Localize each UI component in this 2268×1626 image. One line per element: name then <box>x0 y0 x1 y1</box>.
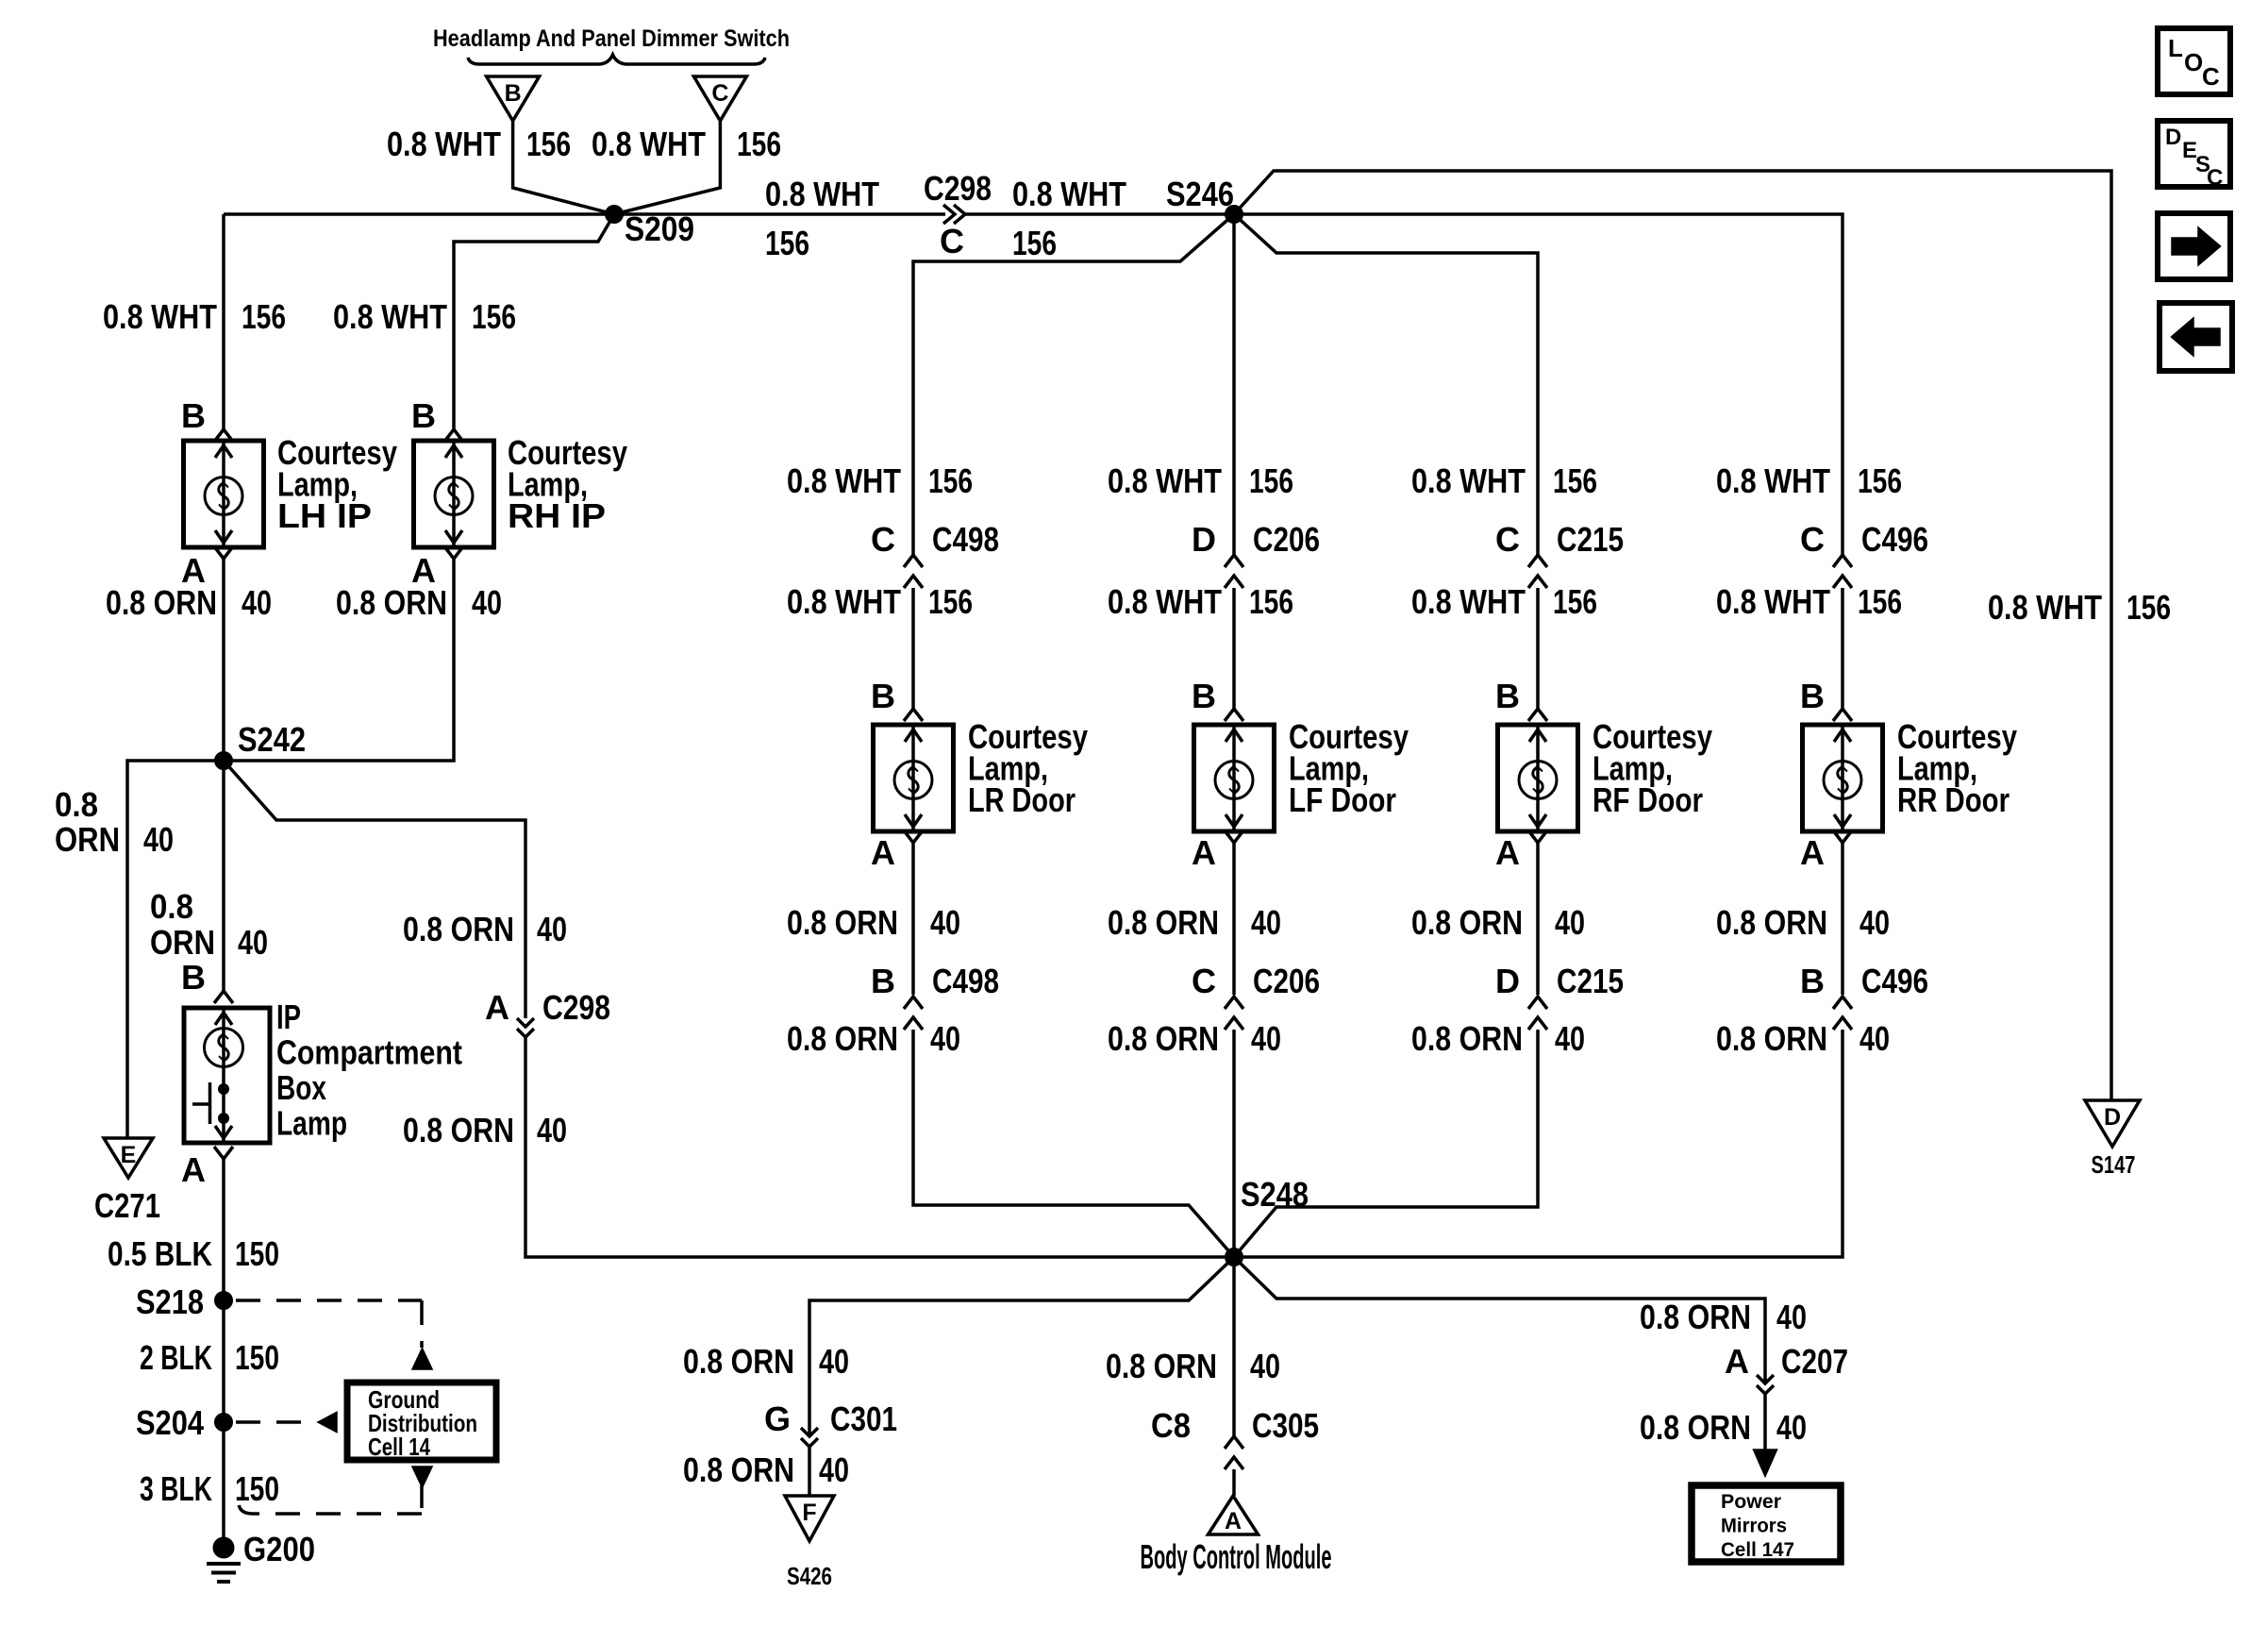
wire: LF door return to S248 <box>1232 1030 1236 1257</box>
svg-text:0.8 WHT: 0.8 WHT <box>787 582 901 621</box>
svg-text:156: 156 <box>1249 582 1293 621</box>
svg-text:0.8 WHT: 0.8 WHT <box>103 297 217 336</box>
wire: S248 to connector C207 <box>1234 1257 1765 1383</box>
wire: C496 to courtesy lamp RR Door <box>1841 588 1844 709</box>
svg-text:A: A <box>1192 833 1216 872</box>
svg-text:0.8 ORN: 0.8 ORN <box>683 1450 794 1489</box>
svg-text:D: D <box>1495 962 1520 1000</box>
svg-text:0.8 ORN: 0.8 ORN <box>1411 1019 1523 1058</box>
wire: LH IP lamp to S242 <box>222 559 225 761</box>
svg-text:40: 40 <box>472 583 502 622</box>
svg-text:40: 40 <box>930 903 960 942</box>
svg-text:150: 150 <box>235 1234 279 1273</box>
svg-text:156: 156 <box>1553 582 1597 621</box>
svg-text:0.8 ORN: 0.8 ORN <box>106 583 217 622</box>
wire: courtesy lamp RR Door to connector <box>1841 843 1844 995</box>
svg-text:Headlamp And Panel Dimmer Swit: Headlamp And Panel Dimmer Switch <box>433 25 790 52</box>
splice S204 <box>215 1414 233 1432</box>
svg-text:LF Door: LF Door <box>1289 780 1396 819</box>
svg-text:C271: C271 <box>94 1186 160 1225</box>
svg-text:B: B <box>181 958 206 997</box>
svg-text:156: 156 <box>2126 588 2171 627</box>
svg-text:LH IP: LH IP <box>277 496 372 535</box>
courtesy lamp RF Door <box>1498 725 1578 831</box>
svg-text:D: D <box>1192 520 1216 559</box>
svg-text:0.8 ORN: 0.8 ORN <box>403 1111 514 1149</box>
wire: C298 A down to S248 run <box>525 1037 1225 1257</box>
wire: S246 feed down to Courtesy Lamp LH IP <box>222 214 225 429</box>
svg-text:C: C <box>1800 520 1825 559</box>
wire: RH IP lamp to S242 <box>224 559 454 761</box>
svg-text:156: 156 <box>1553 461 1597 500</box>
svg-text:0.8 ORN: 0.8 ORN <box>1640 1408 1751 1447</box>
wire: C298 to S246 <box>965 212 1234 216</box>
svg-text:0.8 ORN: 0.8 ORN <box>1108 903 1219 942</box>
svg-text:0.8 ORN: 0.8 ORN <box>1640 1298 1751 1336</box>
reference box: Power Mirrors Cell 147 <box>1692 1485 1841 1562</box>
courtesy lamp LH IP <box>184 441 264 547</box>
svg-text:G200: G200 <box>243 1530 315 1568</box>
svg-text:C206: C206 <box>1253 520 1320 559</box>
splice S242 <box>215 752 233 770</box>
svg-text:A: A <box>1800 833 1825 872</box>
svg-text:Box: Box <box>276 1068 326 1107</box>
svg-text:A: A <box>1725 1342 1749 1381</box>
svg-text:40: 40 <box>1859 903 1890 942</box>
svg-text:40: 40 <box>1555 1019 1585 1058</box>
svg-text:B: B <box>1192 677 1216 715</box>
svg-text:0.5 BLK: 0.5 BLK <box>108 1234 212 1273</box>
svg-text:40: 40 <box>1776 1298 1807 1336</box>
svg-text:C496: C496 <box>1861 962 1928 1000</box>
pin A of LH IP lamp <box>214 546 233 559</box>
svg-text:S204: S204 <box>136 1403 204 1442</box>
svg-text:Compartment: Compartment <box>276 1033 462 1072</box>
svg-text:156: 156 <box>1858 461 1902 500</box>
svg-text:0.8 ORN: 0.8 ORN <box>1108 1019 1219 1058</box>
svg-text:RH IP: RH IP <box>508 496 606 535</box>
svg-text:A: A <box>1495 833 1520 872</box>
svg-text:C498: C498 <box>932 520 999 559</box>
svg-text:Cell 14: Cell 14 <box>368 1433 430 1461</box>
svg-text:0.8 WHT: 0.8 WHT <box>1012 175 1126 213</box>
wire: box lamp to S218 <box>222 1159 225 1300</box>
courtesy lamp LR Door <box>874 725 954 831</box>
svg-text:C305: C305 <box>1252 1406 1319 1445</box>
reference box: Ground Distribution Cell 14 <box>347 1383 496 1460</box>
svg-text:40: 40 <box>1251 903 1281 942</box>
svg-text:A: A <box>181 1150 206 1189</box>
svg-text:156: 156 <box>1249 461 1293 500</box>
svg-text:40: 40 <box>819 1450 849 1489</box>
svg-text:A: A <box>871 833 895 872</box>
svg-text:Cell 147: Cell 147 <box>1721 1539 1794 1561</box>
svg-text:S218: S218 <box>136 1282 204 1321</box>
wire: S248 to connector C305 <box>1232 1257 1236 1436</box>
svg-text:LR Door: LR Door <box>968 780 1076 819</box>
connector triangle B (dimmer switch pin B) <box>487 76 540 121</box>
svg-text:B: B <box>1800 677 1825 715</box>
wire: C215 to courtesy lamp RF Door <box>1536 588 1540 709</box>
courtesy lamp LF Door <box>1194 725 1275 831</box>
svg-text:C498: C498 <box>932 962 999 1000</box>
nav box DESC <box>2158 121 2230 187</box>
svg-text:S242: S242 <box>238 720 306 759</box>
wire: C301 to S426 <box>808 1447 811 1496</box>
svg-text:S248: S248 <box>1241 1175 1309 1214</box>
svg-text:B: B <box>871 962 895 1000</box>
svg-text:ORN: ORN <box>150 923 215 962</box>
wire: S248 to connector C301 (F) <box>809 1257 1234 1436</box>
wire: RF door return to S248 <box>1234 1030 1538 1257</box>
svg-text:B: B <box>1800 962 1825 1000</box>
wire: courtesy lamp RF Door to connector <box>1536 843 1540 995</box>
svg-text:C298: C298 <box>542 988 610 1027</box>
pin A of IP compartment box lamp <box>214 1147 233 1159</box>
connector triangle A (Body Control Module) <box>1209 1496 1259 1534</box>
dashed reference: Ground Distribution to G200 <box>414 1467 431 1485</box>
svg-text:0.8: 0.8 <box>150 887 193 926</box>
svg-text:40: 40 <box>1250 1347 1280 1385</box>
svg-text:156: 156 <box>1012 224 1057 262</box>
connector triangle E (C271) <box>104 1138 153 1178</box>
splice S248 <box>1226 1249 1243 1266</box>
svg-text:0.8 WHT: 0.8 WHT <box>387 125 501 163</box>
svg-text:Body Control Module: Body Control Module <box>1141 1537 1332 1576</box>
svg-text:C8: C8 <box>1151 1406 1191 1445</box>
pin A of courtesy lamp LR Door <box>904 830 923 843</box>
svg-text:40: 40 <box>537 1111 567 1149</box>
svg-text:C: C <box>940 222 964 260</box>
wire: S246 to LF door branch <box>1232 214 1236 555</box>
courtesy lamp RH IP <box>414 441 494 547</box>
svg-text:156: 156 <box>928 582 973 621</box>
svg-text:0.8 ORN: 0.8 ORN <box>1716 903 1827 942</box>
svg-text:C215: C215 <box>1557 962 1624 1000</box>
wire: triangle C to S209 <box>614 121 720 214</box>
wire: triangle B to S209 <box>513 121 614 214</box>
splice S218 <box>215 1292 233 1310</box>
svg-text:S147: S147 <box>2092 1150 2136 1179</box>
svg-text:0.8 WHT: 0.8 WHT <box>1411 582 1526 621</box>
wire: S246 to LR door branch <box>913 214 1234 555</box>
svg-text:D: D <box>2165 125 2181 150</box>
wire: S204 to G200 <box>222 1422 225 1548</box>
svg-text:40: 40 <box>537 910 567 948</box>
wire: C206 to courtesy lamp LF Door <box>1232 588 1236 709</box>
svg-text:Power: Power <box>1721 1491 1781 1513</box>
wire: C305 to Body Control Module <box>1232 1469 1236 1496</box>
wire: S246 to RR door branch <box>1234 214 1843 555</box>
wire: S242 down to IP compartment box lamp <box>222 761 225 991</box>
dashed reference: S218 to Ground Distribution <box>236 1299 422 1302</box>
svg-text:40: 40 <box>242 583 272 622</box>
svg-text:40: 40 <box>930 1019 960 1058</box>
dashed reference: S204 to Ground Distribution <box>236 1420 311 1424</box>
nav box forward arrow <box>2158 213 2230 279</box>
svg-text:E: E <box>121 1142 137 1168</box>
wire: RR door return to S248 <box>1234 1030 1843 1257</box>
pin A of courtesy lamp LF Door <box>1225 830 1243 843</box>
svg-text:F: F <box>802 1500 816 1526</box>
svg-text:C207: C207 <box>1781 1342 1848 1381</box>
svg-text:C: C <box>2202 62 2220 91</box>
svg-text:0.8 ORN: 0.8 ORN <box>403 910 514 948</box>
svg-text:G: G <box>764 1400 791 1438</box>
svg-text:40: 40 <box>1776 1408 1807 1447</box>
connector triangle C (dimmer switch pin C) <box>693 76 746 121</box>
wire: S246 up-right to far right feed <box>1234 171 2111 1100</box>
svg-text:Lamp: Lamp <box>276 1104 347 1143</box>
svg-text:B: B <box>505 80 522 107</box>
svg-text:2 BLK: 2 BLK <box>140 1338 212 1377</box>
svg-text:0.8 WHT: 0.8 WHT <box>1411 461 1526 500</box>
svg-text:RR Door: RR Door <box>1897 780 2010 819</box>
svg-text:0.8: 0.8 <box>55 785 98 824</box>
svg-text:0.8 WHT: 0.8 WHT <box>1108 461 1222 500</box>
svg-text:O: O <box>2184 48 2203 76</box>
connector C298 pin C (inline, horizontal) <box>943 205 955 224</box>
ground G200 <box>213 1537 234 1558</box>
svg-text:40: 40 <box>819 1342 849 1381</box>
wire: S246 to RF door branch <box>1234 214 1538 555</box>
svg-text:150: 150 <box>235 1469 279 1508</box>
wire: courtesy lamp LF Door to connector <box>1232 843 1236 995</box>
connector triangle F (S426) <box>785 1496 834 1541</box>
svg-text:ORN: ORN <box>55 820 120 859</box>
courtesy lamp RR Door <box>1803 725 1883 831</box>
svg-text:0.8 WHT: 0.8 WHT <box>333 297 447 336</box>
svg-text:0.8 WHT: 0.8 WHT <box>1988 588 2102 627</box>
wire: S242 to connector C271 (E) <box>127 761 224 1138</box>
svg-text:0.8 ORN: 0.8 ORN <box>683 1342 794 1381</box>
svg-text:C: C <box>1495 520 1520 559</box>
wire: courtesy lamp LR Door to connector <box>911 843 915 995</box>
svg-text:150: 150 <box>235 1338 279 1377</box>
connector triangle D (S147) <box>2085 1100 2140 1147</box>
svg-text:3 BLK: 3 BLK <box>140 1469 212 1508</box>
nav box LOC <box>2158 28 2230 94</box>
svg-text:C496: C496 <box>1861 520 1928 559</box>
svg-text:B: B <box>871 677 895 715</box>
pin A of courtesy lamp RF Door <box>1528 830 1547 843</box>
svg-text:156: 156 <box>472 297 516 336</box>
svg-text:0.8 WHT: 0.8 WHT <box>1716 582 1830 621</box>
wire: S209 to Courtesy Lamp RH IP <box>454 214 614 429</box>
svg-text:0.8 WHT: 0.8 WHT <box>592 125 706 163</box>
svg-text:0.8 WHT: 0.8 WHT <box>787 461 901 500</box>
svg-text:C215: C215 <box>1557 520 1624 559</box>
svg-text:0.8 ORN: 0.8 ORN <box>1106 1347 1217 1385</box>
svg-text:D: D <box>2104 1104 2121 1131</box>
pin A of courtesy lamp RR Door <box>1833 830 1852 843</box>
svg-text:B: B <box>181 396 206 435</box>
svg-text:C: C <box>711 80 728 107</box>
svg-text:40: 40 <box>1251 1019 1281 1058</box>
svg-text:S246: S246 <box>1166 175 1234 213</box>
svg-text:0.8 ORN: 0.8 ORN <box>1411 903 1523 942</box>
svg-text:A: A <box>485 988 509 1027</box>
pin A of RH IP lamp <box>444 546 463 559</box>
svg-text:0.8 ORN: 0.8 ORN <box>1716 1019 1827 1058</box>
wire: main feed from LH corner to C298 <box>224 212 945 216</box>
svg-text:0.8 ORN: 0.8 ORN <box>787 903 898 942</box>
wire: S218 to S204 <box>222 1300 225 1422</box>
svg-text:156: 156 <box>1858 582 1902 621</box>
svg-text:40: 40 <box>1859 1019 1890 1058</box>
IP compartment box lamp (lamp + switch) <box>184 1008 270 1143</box>
svg-text:A: A <box>1225 1508 1242 1534</box>
svg-text:40: 40 <box>238 923 268 962</box>
svg-text:B: B <box>1495 677 1520 715</box>
splice S209 <box>606 206 624 224</box>
svg-text:B: B <box>411 396 436 435</box>
svg-text:L: L <box>2168 34 2183 62</box>
svg-text:C301: C301 <box>830 1400 897 1438</box>
svg-text:IP: IP <box>276 997 301 1036</box>
svg-text:0.8 WHT: 0.8 WHT <box>1716 461 1830 500</box>
switch contacts inside box lamp <box>219 1084 229 1095</box>
svg-text:C: C <box>2207 165 2223 191</box>
wire: C498 to courtesy lamp LR Door <box>911 588 915 709</box>
splice S246 <box>1226 206 1243 224</box>
svg-text:40: 40 <box>143 820 174 859</box>
svg-text:156: 156 <box>526 125 571 163</box>
wire arrow: C207 to Power Mirrors <box>1763 1394 1767 1453</box>
svg-text:0.8 WHT: 0.8 WHT <box>765 175 879 213</box>
svg-text:C: C <box>1192 962 1216 1000</box>
svg-text:C206: C206 <box>1253 962 1320 1000</box>
svg-text:Mirrors: Mirrors <box>1721 1516 1787 1537</box>
svg-text:C: C <box>871 520 895 559</box>
wire: LR door return to S248 <box>913 1030 1234 1257</box>
svg-text:156: 156 <box>737 125 781 163</box>
wire: S242 to connector C298 pin A <box>224 761 525 1018</box>
svg-text:0.8 ORN: 0.8 ORN <box>787 1019 898 1058</box>
brace under switch label <box>468 55 765 64</box>
svg-text:RF Door: RF Door <box>1593 780 1703 819</box>
svg-text:S426: S426 <box>787 1562 832 1590</box>
svg-text:156: 156 <box>242 297 286 336</box>
svg-text:0.8 WHT: 0.8 WHT <box>1108 582 1222 621</box>
svg-text:0.8 ORN: 0.8 ORN <box>336 583 447 622</box>
svg-text:S209: S209 <box>625 210 694 248</box>
svg-text:40: 40 <box>1555 903 1585 942</box>
svg-text:156: 156 <box>765 224 809 262</box>
nav box back arrow <box>2160 303 2232 371</box>
svg-text:C298: C298 <box>924 169 992 208</box>
svg-text:156: 156 <box>928 461 973 500</box>
